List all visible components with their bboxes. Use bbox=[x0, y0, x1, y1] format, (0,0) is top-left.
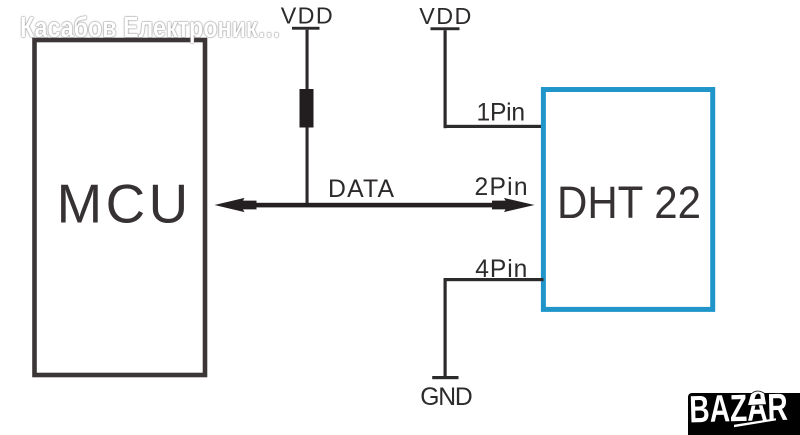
svg-text:MCU: MCU bbox=[57, 172, 188, 234]
wire elbow to 1Pin bbox=[444, 125, 544, 128]
ground bar bbox=[432, 376, 458, 379]
resistor R1 (pull-up) bbox=[300, 89, 314, 128]
VDD power rail bar (pull-up) bbox=[292, 27, 320, 30]
MCU box bbox=[35, 40, 206, 375]
wire VDD rail down to resistor bbox=[306, 30, 309, 90]
DHT22 box bbox=[543, 90, 712, 310]
DATA bus wire (bidirectional) bbox=[252, 203, 496, 208]
svg-text:DHT 22: DHT 22 bbox=[557, 177, 701, 228]
svg-text:GND: GND bbox=[420, 384, 473, 411]
watermark logo Bazar (black box) bbox=[688, 393, 800, 435]
wire resistor down to DATA node bbox=[306, 128, 309, 206]
arrowhead left (into MCU) bbox=[215, 198, 257, 212]
svg-text:VDD: VDD bbox=[281, 3, 333, 29]
VDD power rail bar (supply) bbox=[431, 27, 460, 30]
wire 4Pin from DHT22 bbox=[444, 278, 544, 281]
watermark text "Касабов Електроник..." bbox=[20, 14, 281, 43]
svg-text:1Pin: 1Pin bbox=[477, 100, 526, 127]
bazar logo swoosh bbox=[734, 418, 776, 427]
wire VDD supply down bbox=[444, 30, 447, 128]
bazar logo bag icon bbox=[748, 391, 767, 406]
svg-text:DATA: DATA bbox=[328, 176, 394, 203]
wire down to ground bbox=[444, 278, 447, 376]
svg-text:2Pin: 2Pin bbox=[475, 174, 528, 201]
bazar logo letters bbox=[689, 387, 788, 432]
svg-text:VDD: VDD bbox=[419, 3, 471, 29]
arrowhead right (into DHT22 2Pin) bbox=[492, 198, 535, 212]
